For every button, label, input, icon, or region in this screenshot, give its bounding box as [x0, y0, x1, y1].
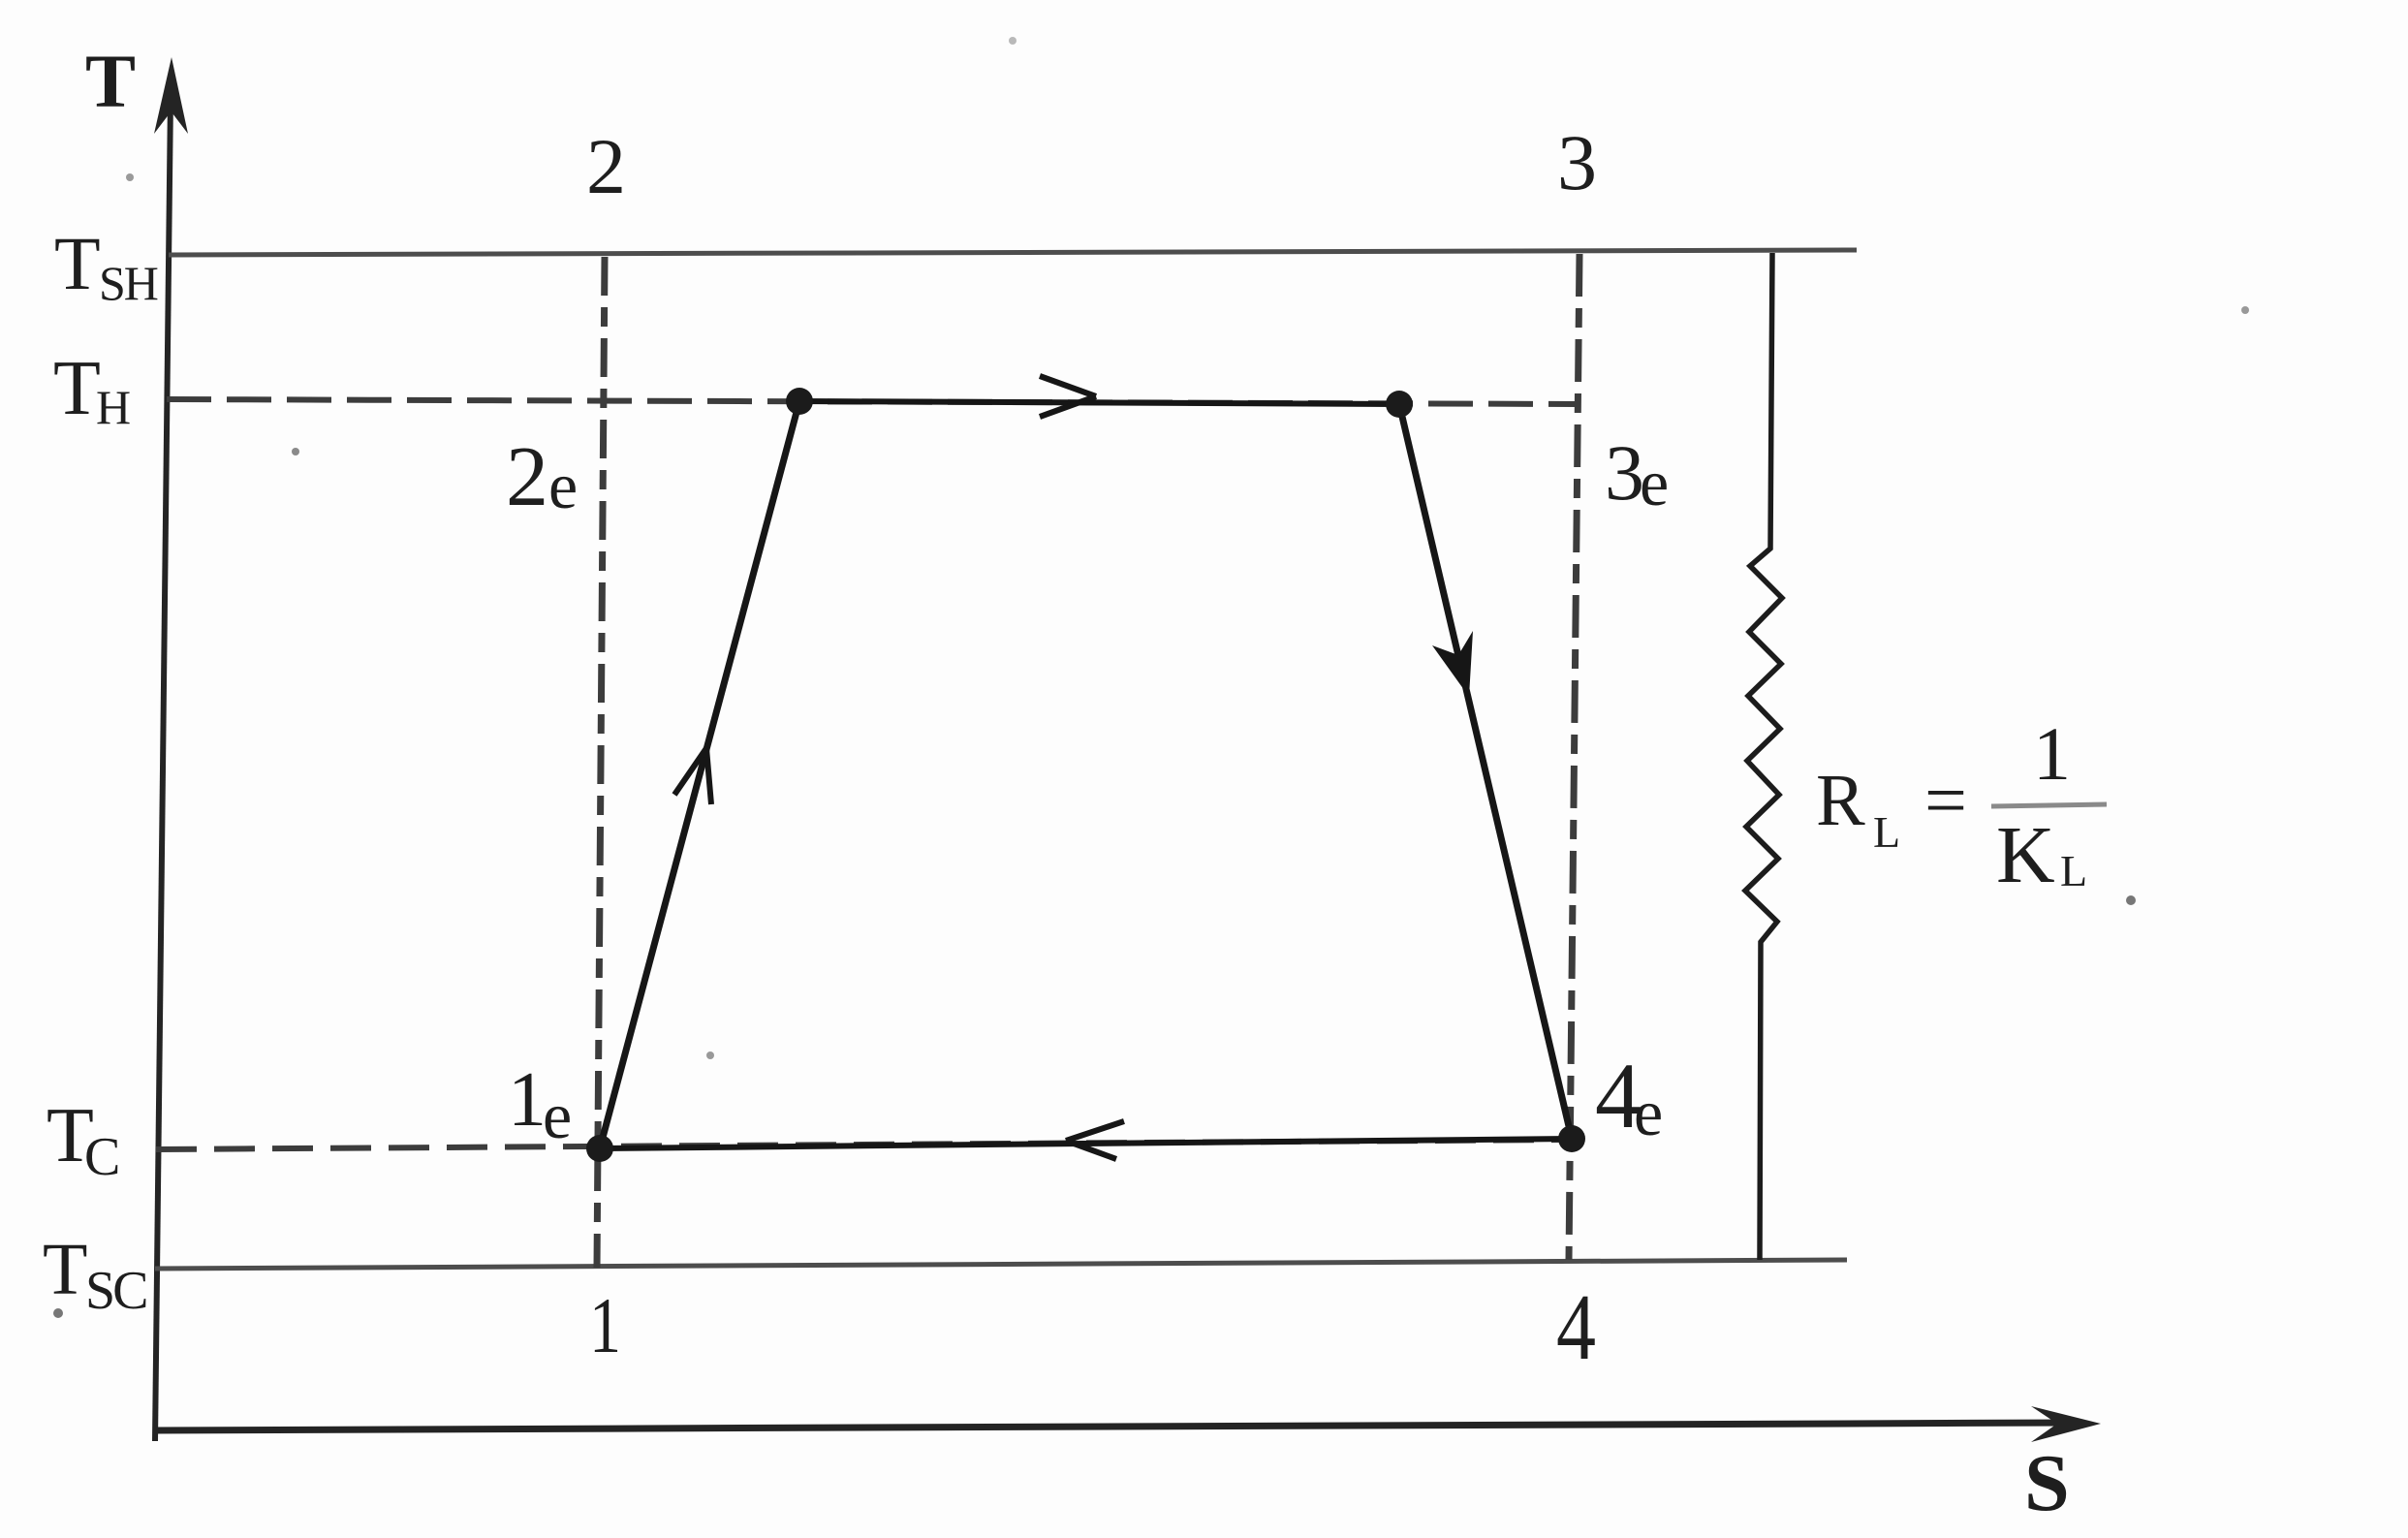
svg-text:4: 4 [1556, 1275, 1596, 1380]
svg-text:L: L [1873, 807, 1900, 857]
svg-text:T: T [54, 221, 101, 305]
svg-text:3: 3 [1557, 118, 1597, 206]
svg-text:e: e [1640, 446, 1669, 519]
svg-text:e: e [1634, 1076, 1663, 1149]
svg-text:R: R [1816, 760, 1865, 841]
svg-text:T: T [53, 346, 101, 431]
svg-text:1: 1 [508, 1057, 547, 1143]
svg-text:2: 2 [506, 430, 548, 524]
svg-text:T: T [43, 1229, 87, 1310]
svg-text:C: C [84, 1127, 120, 1187]
svg-text:H: H [96, 380, 131, 434]
svg-text:T: T [85, 39, 136, 123]
svg-text:2: 2 [586, 122, 626, 210]
svg-text:=: = [1924, 758, 1967, 842]
svg-text:e: e [548, 449, 578, 522]
svg-text:1: 1 [589, 1281, 621, 1369]
svg-text:SC: SC [85, 1261, 146, 1321]
svg-text:S: S [2024, 1438, 2070, 1528]
svg-text:K: K [1996, 810, 2055, 900]
svg-text:e: e [543, 1079, 572, 1152]
svg-text:3: 3 [1605, 428, 1644, 517]
svg-text:L: L [2060, 846, 2087, 895]
svg-text:SH: SH [99, 256, 158, 310]
svg-text:1: 1 [2033, 711, 2071, 796]
